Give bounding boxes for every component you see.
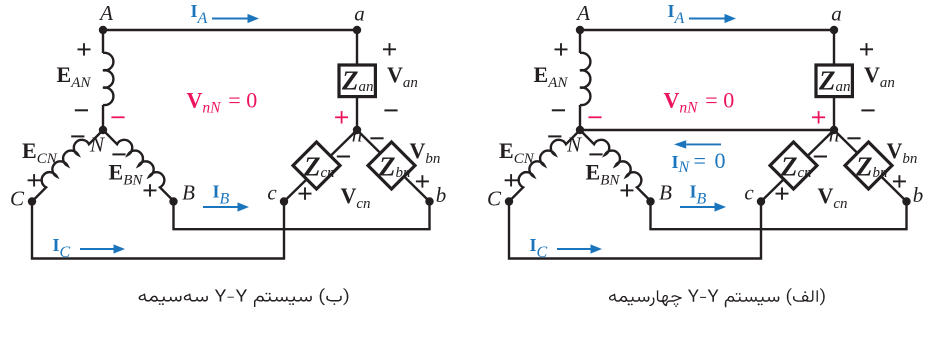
svg-text:b: b [436, 183, 447, 207]
svg-text:0: 0 [715, 148, 726, 173]
svg-text:A: A [575, 1, 590, 25]
svg-text:N: N [566, 133, 582, 157]
svg-text:B: B [659, 181, 672, 205]
svg-text:c: c [267, 181, 277, 205]
svg-text:C: C [487, 187, 502, 211]
svg-text:a: a [831, 2, 842, 26]
svg-text:B: B [182, 181, 195, 205]
svg-text:=: = [694, 148, 706, 173]
svg-text:C: C [10, 187, 25, 211]
svg-text:a: a [354, 2, 365, 26]
svg-text:N: N [89, 133, 105, 157]
svg-text:=: = [228, 88, 240, 113]
svg-text:b: b [913, 183, 924, 207]
svg-text:0: 0 [246, 88, 257, 113]
svg-text:0: 0 [723, 88, 734, 113]
svg-text:=: = [705, 88, 717, 113]
svg-text:A: A [98, 1, 113, 25]
svg-text:c: c [744, 181, 754, 205]
svg-text:n: n [352, 123, 363, 147]
svg-text:n: n [829, 123, 840, 147]
